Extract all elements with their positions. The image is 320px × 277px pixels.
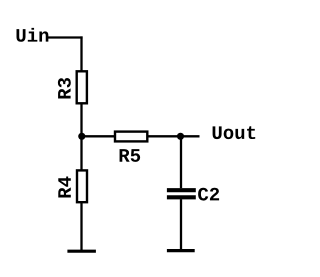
resistor R4 — [77, 170, 87, 202]
node Uin label — [17, 28, 49, 42]
wire Uin horizontal — [48, 36, 83, 38]
label R3 — [58, 78, 71, 99]
wire R4 to ground — [80, 202, 82, 251]
resistor R3 — [77, 71, 87, 103]
wire node A to R5 — [82, 135, 115, 137]
ground left — [67, 250, 96, 253]
wire Uin corner down to R3 — [80, 36, 82, 71]
node B junction dot — [177, 133, 184, 140]
label R4 — [58, 177, 71, 198]
wire node A down to R4 — [80, 136, 82, 170]
node Uout label — [213, 126, 256, 139]
resistor R5 — [115, 132, 147, 142]
label R5 — [120, 149, 141, 162]
wire R3 to node A — [80, 104, 82, 137]
label C2 — [198, 188, 219, 201]
ground right — [167, 249, 195, 252]
wire R5 to node B — [147, 135, 199, 137]
wire C2 to ground — [180, 199, 182, 250]
wire node B down to C2 — [180, 136, 182, 188]
node A junction dot — [78, 133, 85, 140]
capacitor C2 top plate — [167, 188, 196, 192]
capacitor C2 bottom plate — [167, 195, 196, 199]
